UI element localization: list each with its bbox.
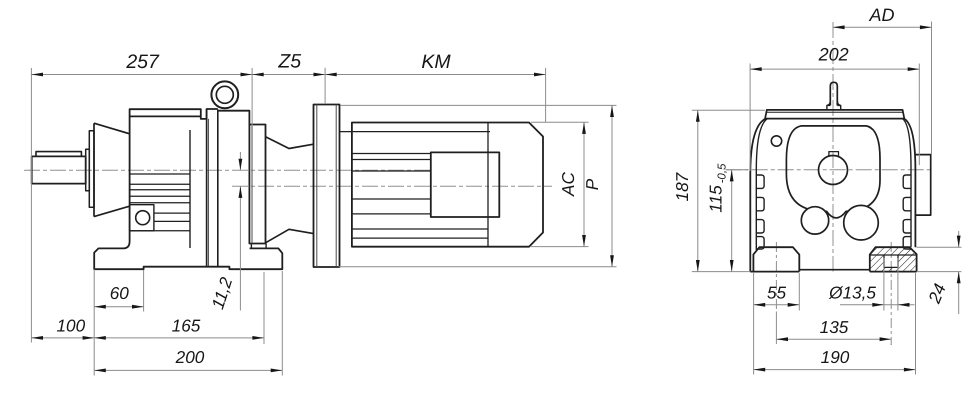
dimension KM (325, 68, 545, 123)
breather plug (830, 82, 837, 105)
svg-text:100: 100 (56, 316, 85, 336)
dimension Z5 (252, 68, 325, 104)
tapered front housing cone (94, 123, 130, 216)
dimension 202 (750, 64, 919, 172)
dimension AC (531, 122, 589, 246)
svg-text:257: 257 (125, 51, 160, 73)
lower gear boss left (801, 207, 828, 234)
horizontal centerline output axis (726, 169, 932, 171)
gearbox cooling fins (130, 174, 190, 231)
svg-text:24: 24 (924, 281, 950, 307)
gearbox rear wall thin line (207, 119, 209, 267)
bearing cover (89, 131, 94, 207)
svg-text:55: 55 (767, 282, 787, 302)
dimension AD (833, 22, 932, 155)
dimension 135 (776, 312, 891, 346)
motor body outline (352, 123, 543, 247)
svg-text:AD: AD (868, 5, 894, 25)
side protrusion (915, 155, 930, 216)
dimension 165 (94, 272, 264, 344)
svg-text:187: 187 (672, 171, 692, 201)
dimension 190 (754, 273, 916, 375)
dimension 200 (94, 271, 282, 376)
housing right inner wall line (903, 119, 912, 248)
motor flange (314, 105, 340, 268)
gear cover blob (786, 126, 880, 218)
dimension P (339, 105, 617, 266)
keyway mark (829, 152, 839, 156)
svg-text:135: 135 (820, 317, 849, 337)
right foot hole axis (890, 242, 892, 345)
wall ribs right (903, 175, 911, 249)
svg-text:190: 190 (821, 347, 850, 367)
gearbox rear wall lines (207, 109, 218, 267)
motor cooling fins (352, 154, 431, 214)
motor stator boundary lines (340, 123, 491, 247)
svg-text:AC: AC (558, 171, 578, 196)
dimension 100 (31, 269, 94, 375)
svg-text:11,2: 11,2 (207, 274, 236, 311)
lifting eye bolt (211, 81, 238, 108)
housing left inner wall line (756, 119, 767, 250)
dimension diameter 13.5 (840, 258, 915, 311)
svg-text:202: 202 (818, 45, 849, 65)
oil plug box (130, 205, 154, 231)
dimension 187 (692, 110, 765, 271)
right foot sectioned (870, 247, 917, 271)
left foot hole axis (775, 242, 777, 312)
motor flange inner lines (317, 105, 336, 268)
housing left wall (750, 119, 766, 272)
dimension 115-0.5 (726, 170, 748, 272)
output shaft (32, 156, 86, 183)
dimension 11.2 axis offset (239, 152, 241, 311)
bolt slot outline (871, 255, 916, 267)
svg-text:KM: KM (421, 51, 451, 73)
svg-text:165: 165 (172, 316, 201, 336)
svg-text:60: 60 (110, 283, 130, 303)
between feet bottom (799, 269, 870, 271)
gearbox rear cover plate (251, 125, 253, 244)
gearbox housing outline (130, 109, 266, 244)
top cover cap (765, 110, 904, 119)
dimension 55 (754, 273, 800, 311)
adapter bell cone (266, 137, 314, 243)
terminal box (431, 152, 500, 217)
svg-text:Z5: Z5 (277, 51, 301, 73)
wall ribs left (756, 175, 764, 249)
rear foot support lines (251, 244, 266, 249)
housing right wall (904, 119, 915, 248)
svg-text:P: P (582, 178, 602, 190)
key on output shaft (36, 152, 81, 157)
centerline output shaft axis (24, 169, 431, 171)
base and feet (94, 242, 282, 270)
shaft collar ring (86, 149, 90, 190)
small inspection hole (771, 136, 781, 146)
oil plug circle (136, 211, 150, 225)
centerline motor axis (232, 185, 552, 187)
lower gear boss right (844, 205, 879, 240)
right foot hatching with bolt slot (870, 247, 917, 271)
svg-text:115: 115 (706, 185, 726, 213)
vertical centerline (832, 22, 834, 272)
ground lines (750, 271, 916, 273)
gearbox inner front vertical (189, 130, 191, 248)
dimension 24 (917, 231, 962, 314)
dimension 257 (31, 68, 252, 343)
svg-text:-0,5: -0,5 (717, 163, 729, 183)
svg-text:Ø13,5: Ø13,5 (828, 282, 876, 302)
left foot (753, 247, 799, 271)
svg-text:200: 200 (175, 347, 205, 367)
output shaft boss (819, 156, 848, 185)
dimension 60 (94, 270, 143, 312)
